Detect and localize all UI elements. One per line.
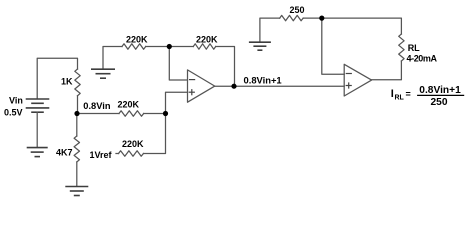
ground at R5 input — [91, 68, 115, 70]
resistor R6 220K (feedback) — [169, 46, 193, 48]
wire node C down to op-amp U1 - input — [169, 47, 187, 81]
resistor R7 250 — [280, 15, 304, 20]
wire battery top to 1K top — [37, 58, 77, 98]
node 0.8Vin junction — [74, 111, 79, 116]
svg-text:0.5V: 0.5V — [4, 107, 23, 117]
svg-text:1Vref: 1Vref — [90, 150, 113, 160]
svg-text:=: = — [406, 89, 411, 99]
wire U1 output to U2 + input — [215, 85, 344, 87]
svg-text:220K: 220K — [122, 139, 144, 149]
op-amp U1 — [188, 70, 215, 102]
svg-text:250: 250 — [290, 5, 305, 15]
resistor R4 220K (1Vref row) — [119, 151, 144, 156]
ground under battery — [27, 147, 48, 149]
svg-text:250: 250 — [431, 97, 448, 108]
wire R6 down to output node — [216, 47, 235, 87]
resistor R8 RL — [399, 34, 404, 61]
svg-text:0.8Vin+1: 0.8Vin+1 — [419, 85, 461, 96]
svg-text:220K: 220K — [196, 34, 218, 44]
svg-text:0.8Vin+1: 0.8Vin+1 — [244, 75, 282, 86]
svg-text:0.8Vin: 0.8Vin — [83, 101, 111, 111]
svg-text:Vin: Vin — [9, 96, 23, 106]
resistor R5 220K (grounded input) — [122, 44, 146, 49]
svg-text:220K: 220K — [118, 100, 140, 110]
ground under 4K7 — [65, 186, 88, 188]
wire ground stub for 250 — [260, 18, 280, 42]
svg-text:1K: 1K — [61, 77, 73, 87]
node B junction — [163, 111, 168, 116]
svg-text:RL: RL — [395, 95, 405, 102]
svg-text:4K7: 4K7 — [56, 147, 73, 157]
wire U2 output up to RL bottom — [372, 61, 402, 80]
wire node 0.8Vin to 220K R3 — [77, 113, 119, 115]
wire battery bottom to ground — [36, 112, 38, 147]
wire R4 up to node B — [144, 114, 166, 154]
node U1 output junction — [231, 84, 236, 89]
resistor R2 4K7 — [76, 114, 78, 137]
wire ground stub to 220K R5 — [103, 47, 122, 70]
op-amp U2 — [344, 64, 371, 96]
wire R7 to node D and on to RL top — [303, 18, 401, 34]
wire R3 to node B — [144, 113, 166, 115]
resistor R1 1K — [75, 69, 80, 96]
wire R5 to node C — [146, 46, 170, 48]
svg-text:220K: 220K — [126, 34, 148, 44]
wire 1K bottom to node 0.8Vin — [77, 96, 79, 114]
svg-text:I: I — [391, 88, 394, 100]
wire node D down to op-amp U2 - input — [322, 18, 344, 74]
ground at R7 250 — [249, 41, 271, 43]
wire 1Vref to 220K R4 — [116, 153, 119, 155]
svg-text:4-20mA: 4-20mA — [407, 54, 438, 64]
node D junction — [319, 16, 324, 21]
wire node B up to op-amp U1 + input — [166, 92, 188, 113]
svg-text:RL: RL — [408, 43, 420, 53]
node C junction — [167, 44, 172, 49]
formula IRL = (0.8Vin+1)/250 — [391, 85, 464, 108]
wire 4K7 bottom to ground — [76, 162, 78, 186]
resistor R3 220K (0.8Vin row) — [119, 111, 144, 116]
voltage source V1 Vin 0.5V (battery) — [27, 99, 49, 112]
